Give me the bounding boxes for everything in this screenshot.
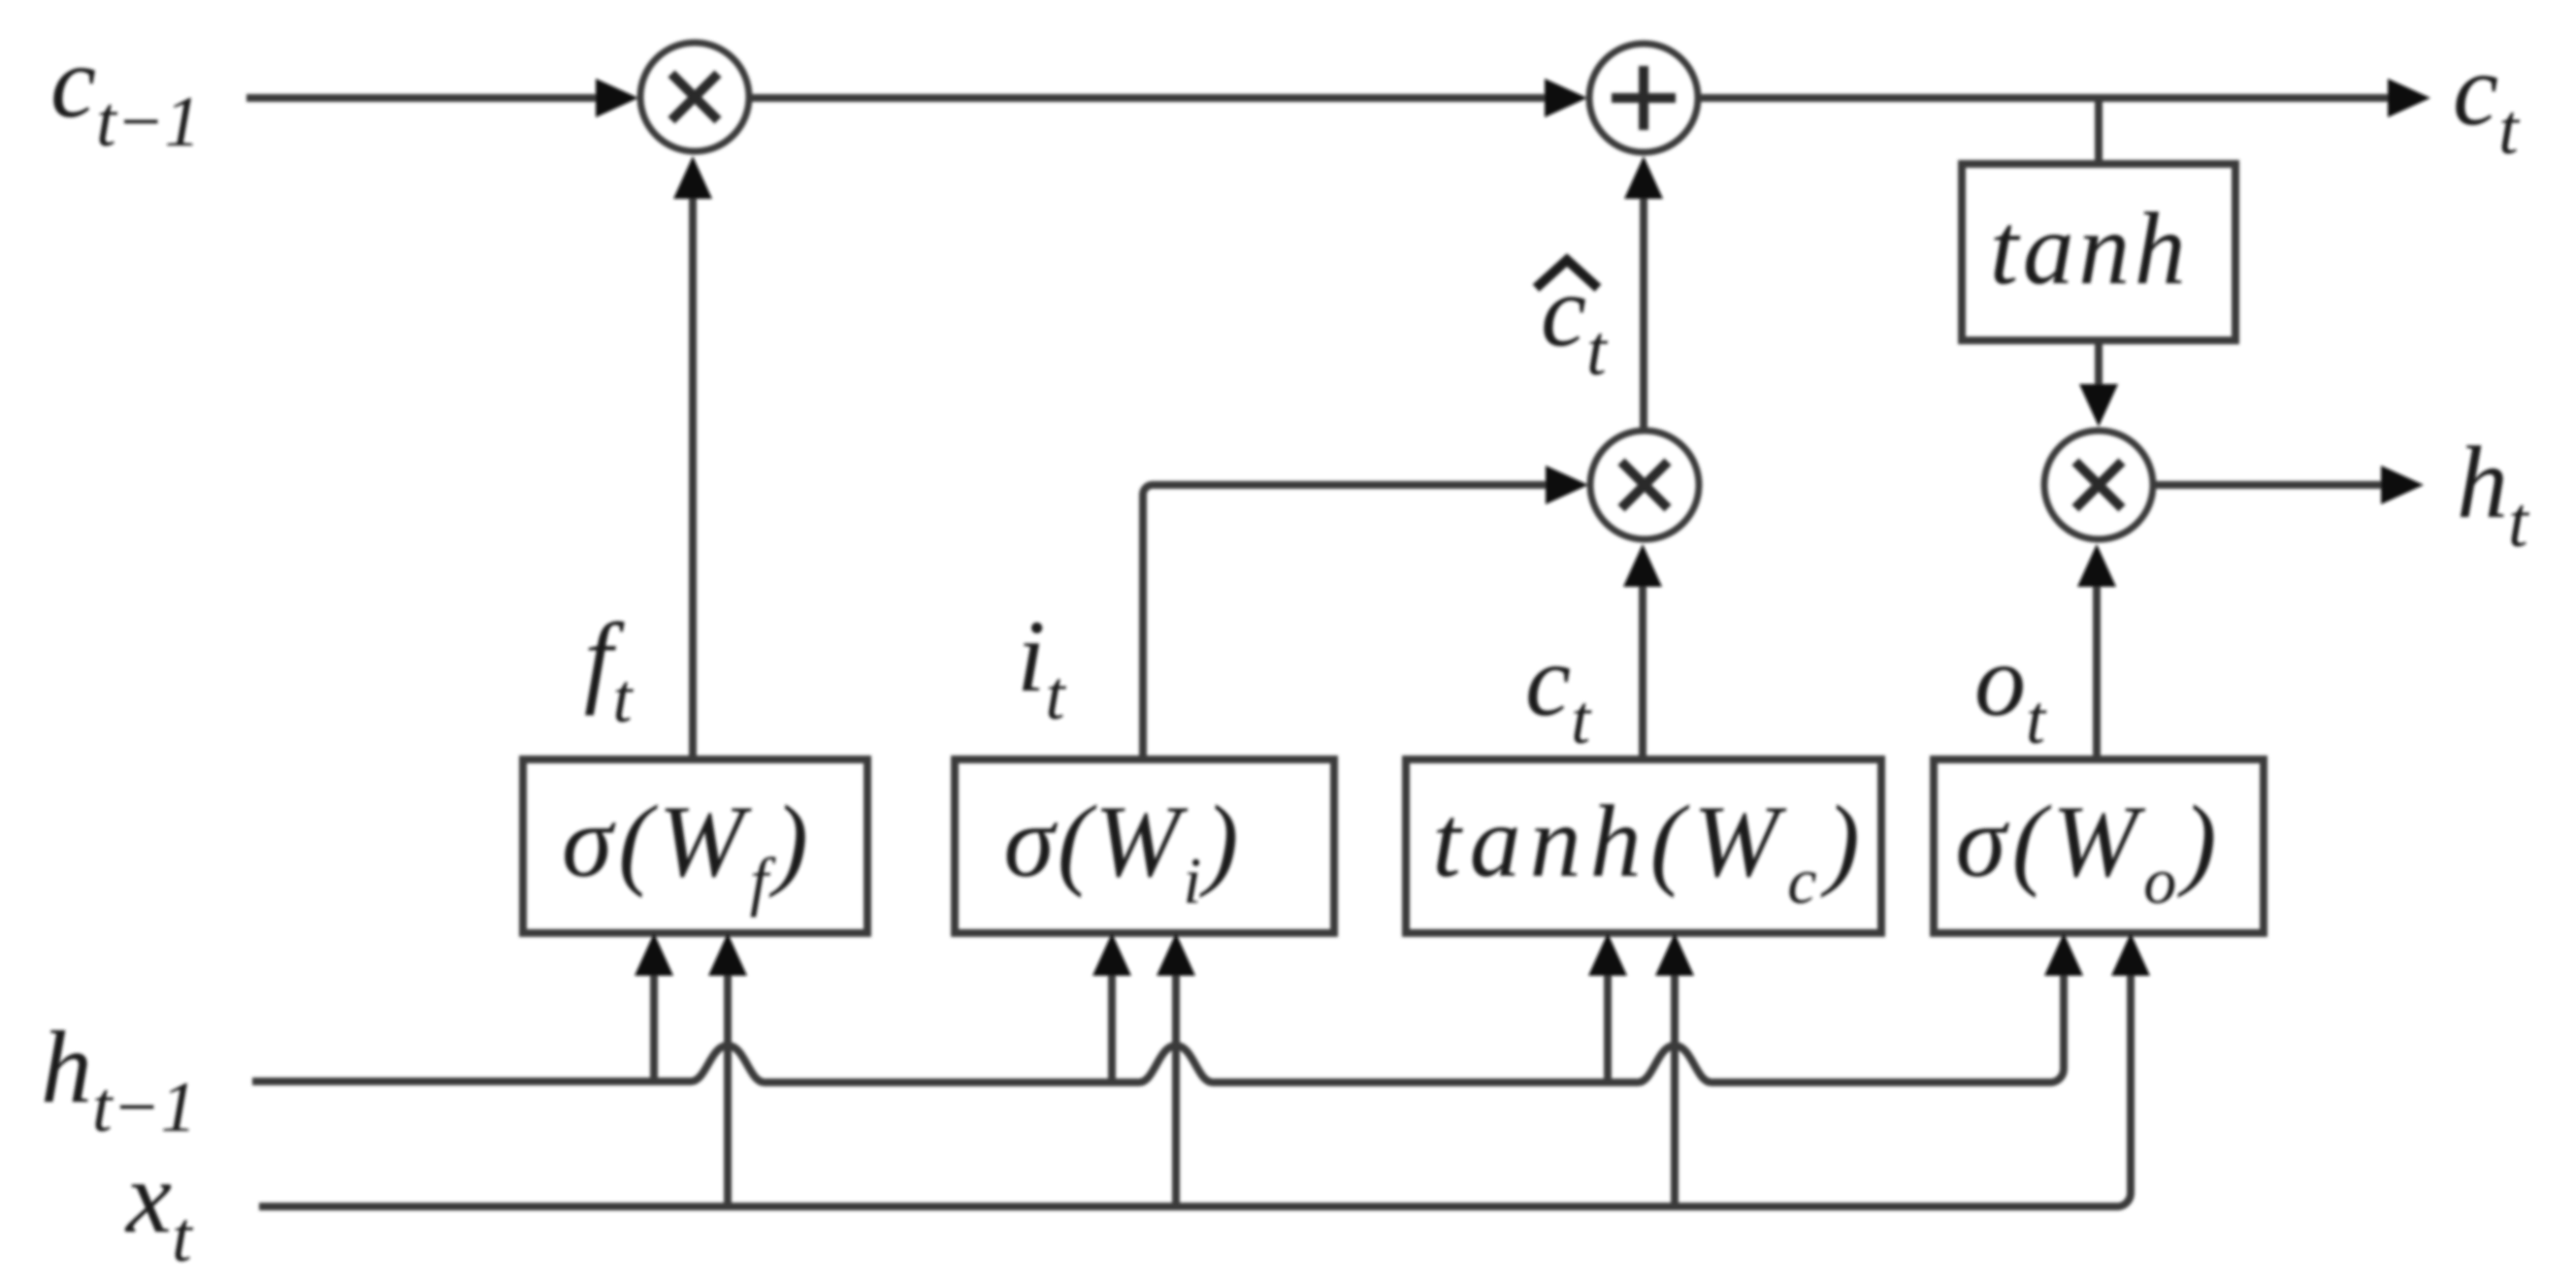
wire x riser into sigma(W_i) <box>1172 974 1180 1207</box>
arrowhead into h_t <box>2381 466 2424 504</box>
svg-text:σ(Wo): σ(Wo) <box>1955 785 2222 918</box>
wire branch down into tanh box <box>2095 98 2103 164</box>
wire h riser into tanh(W_c) <box>1604 974 1612 1081</box>
multiplier node M4 (circle with x) <box>2044 431 2153 539</box>
gate box sigma(W_i) <box>955 759 1334 933</box>
svg-text:ct: ct <box>2453 33 2521 170</box>
arrowhead into M1 <box>596 79 638 117</box>
gate label o_t <box>1974 624 2047 758</box>
gate box sigma(W_o) <box>1934 759 2264 933</box>
arrowhead <box>708 933 747 976</box>
tanh box U5 <box>1962 164 2235 340</box>
gate box sigma(W_f) <box>523 759 867 933</box>
svg-text:ot: ot <box>1974 624 2047 758</box>
arrowhead <box>1588 933 1627 976</box>
gate label i_t <box>1017 599 1066 734</box>
wire A1 to c_t output with junction to tanh box <box>1701 94 2390 102</box>
arrowhead into M3 bottom <box>1623 544 1662 587</box>
svg-text:ht−1: ht−1 <box>41 1011 197 1147</box>
arrowhead into M4 bottom <box>2077 544 2116 587</box>
svg-text:ht: ht <box>2457 426 2530 563</box>
wire c_{t-1} to multiplier node M1 <box>246 94 600 102</box>
arrowhead h rail into sigma(W_o) <box>2044 933 2083 976</box>
arrowhead into M4 top <box>2079 384 2118 427</box>
multiplier node M3 (circle with x, middle) <box>1590 431 1699 539</box>
node label h_t (output) <box>2457 426 2530 563</box>
arrowhead into A1 <box>1545 79 1587 117</box>
arrowhead <box>1092 933 1131 976</box>
node label x_t <box>124 1141 194 1277</box>
wire x_t rail <box>259 974 2131 1207</box>
svg-text:ct: ct <box>1525 624 1592 758</box>
wire sigma(W_i) elbow into M3 <box>1143 485 1549 759</box>
arrowhead <box>1655 933 1694 976</box>
svg-text:σ(Wf): σ(Wf) <box>562 785 814 918</box>
arrowhead <box>635 933 673 976</box>
wire h_{t-1} rail with hops <box>252 974 2064 1082</box>
svg-text:xt: xt <box>124 1141 194 1277</box>
gate label c_t (candidate) <box>1525 624 1592 758</box>
wire tanh(W_c) up into M3 <box>1639 585 1647 759</box>
svg-text:tanh(Wc): tanh(Wc) <box>1432 785 1869 918</box>
wire h riser into sigma(W_i) <box>1108 974 1116 1081</box>
arrowhead into c_t <box>2388 79 2430 117</box>
adder node A1 (circle with plus) <box>1589 44 1698 152</box>
wire x riser into sigma(W_f) <box>724 974 732 1207</box>
svg-text:ct−1: ct−1 <box>50 25 201 162</box>
arrowhead x rail into sigma(W_o) <box>2111 933 2150 976</box>
wire M3 up into A1 <box>1640 198 1647 430</box>
node label c_{t-1} <box>50 25 201 162</box>
arrowhead into M1 bottom <box>673 156 712 199</box>
svg-text:it: it <box>1017 599 1066 734</box>
wire M4 to h_t output <box>2156 481 2383 489</box>
svg-text:σ(Wi): σ(Wi) <box>1003 785 1241 918</box>
svg-text:ft: ft <box>584 602 634 737</box>
gate label f_t <box>584 602 634 737</box>
arrowhead into A1 bottom <box>1624 156 1663 199</box>
svg-text:tanh: tanh <box>1990 192 2190 306</box>
multiplier node M1 (circle with x) <box>640 43 749 151</box>
arrowhead <box>1157 933 1195 976</box>
node label c_t (output) <box>2453 33 2521 170</box>
wire h riser into sigma(W_f) <box>650 974 658 1081</box>
wire sigma(W_f) up into M1 <box>689 198 697 759</box>
node label h_{t-1} <box>41 1011 197 1147</box>
wire sigma(W_o) up into M4 <box>2093 585 2101 759</box>
arrowhead into M3 left <box>1546 466 1588 504</box>
gate box tanh(W_c) <box>1406 759 1881 933</box>
wire M1 to adder node A1 <box>752 94 1549 102</box>
wire tanh box to multiplier M4 <box>2095 340 2103 386</box>
wire x riser into tanh(W_c) <box>1671 974 1679 1207</box>
node label c-hat_t <box>1536 254 1609 391</box>
